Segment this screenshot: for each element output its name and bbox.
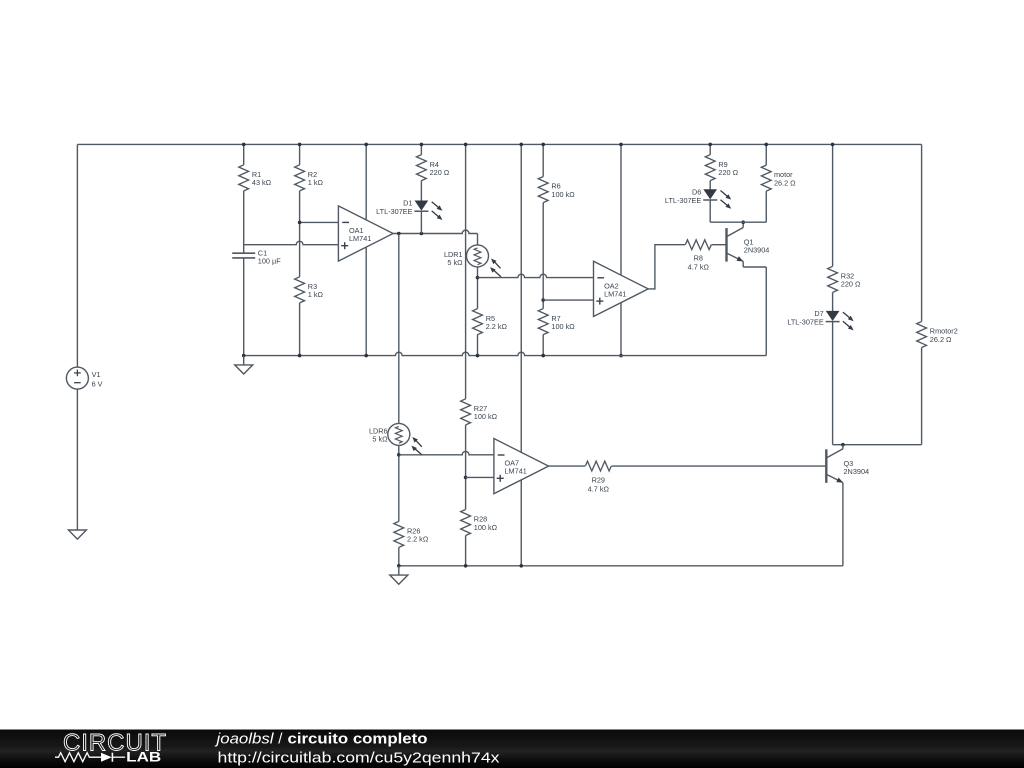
LED D7: [827, 311, 839, 320]
top rail junction dots: [242, 143, 246, 147]
node LDR6-OA7 junction: [397, 453, 401, 457]
svg-text:2N3904: 2N3904: [844, 467, 870, 476]
wire R32 upper lead: [832, 144, 834, 266]
ground symbol at lower rail: [398, 566, 400, 575]
resistor R2: [295, 165, 305, 191]
wire R1 to C1: [243, 191, 245, 253]
wire Q1 emitter down: [742, 261, 744, 267]
svg-text:LTL-307EE: LTL-307EE: [665, 196, 702, 205]
wire R6 upper lead: [542, 144, 544, 176]
wire R9 to D6: [709, 181, 711, 190]
svg-text:LAB: LAB: [126, 749, 161, 765]
OA2 V- power pin: [620, 303, 622, 356]
svg-text:http://circuitlab.com/cu5y2qen: http://circuitlab.com/cu5y2qennh74x: [218, 750, 501, 767]
node C1 at ground rail: [242, 354, 246, 358]
svg-text:R29: R29: [592, 475, 605, 484]
photoresistor LDR1: [467, 245, 489, 267]
wire R6 to R7: [542, 203, 544, 309]
svg-text:2.2 kΩ: 2.2 kΩ: [407, 535, 429, 544]
wire R9 upper lead: [709, 144, 711, 154]
OA1 V- power pin: [365, 247, 367, 355]
wire OA2 output to R8: [648, 245, 685, 289]
resistor R8: [685, 240, 711, 250]
transistor Q1: [725, 228, 727, 262]
wire OA2 inverting input from LDR1: [478, 274, 594, 277]
ground below V1: [76, 521, 78, 530]
resistor R32: [828, 266, 838, 292]
wire left branch to V1: [76, 144, 78, 367]
resistor R1: [239, 165, 249, 191]
wire lower ground rail: [399, 565, 843, 567]
wire C1 to ground rail: [243, 258, 245, 356]
resistor R5: [473, 309, 483, 335]
wire R7 to ground rail: [542, 335, 544, 356]
wire OA1 inverting input: [300, 221, 339, 223]
resistor R6: [538, 177, 548, 203]
wire Q3 collector stub: [842, 445, 844, 449]
svg-text:100 kΩ: 100 kΩ: [474, 412, 498, 421]
node Q3 collector junction: [841, 443, 845, 447]
wire R3 to ground rail: [299, 303, 301, 356]
wire Q1 collector: [742, 222, 744, 227]
wire main ground rail: [244, 352, 767, 355]
wire D6 to collector node: [709, 200, 711, 222]
wire LDR6 to R26: [398, 445, 400, 521]
node LDR1-R5 junction: [476, 276, 480, 280]
svg-text:5 kΩ: 5 kΩ: [372, 435, 388, 444]
svg-text:LM741: LM741: [505, 467, 527, 476]
svg-text:LTL-307EE: LTL-307EE: [376, 207, 413, 216]
node OA7 V- at lower rail: [519, 564, 523, 568]
svg-text:1 kΩ: 1 kΩ: [308, 178, 324, 187]
node OA1 output junction: [397, 232, 401, 236]
wire R32 to D7: [832, 292, 834, 311]
svg-text:4.7 kΩ: 4.7 kΩ: [688, 263, 710, 272]
node R6-R7-OA2 junction: [541, 298, 545, 302]
resistor R4: [417, 155, 427, 181]
resistor R7: [538, 309, 548, 335]
wire OA7 non-inverting input: [466, 476, 494, 478]
wire R27 to R28: [465, 425, 467, 510]
node Q1 collector junction: [741, 220, 745, 224]
svg-text:2N3904: 2N3904: [744, 246, 770, 255]
svg-text:2.2 kΩ: 2.2 kΩ: [486, 322, 508, 331]
svg-text:6 V: 6 V: [92, 379, 103, 388]
node junction R2-R3-OA1: [298, 221, 302, 225]
wire D7 to Q3 collector node: [832, 322, 834, 445]
svg-text:220 Ω: 220 Ω: [718, 168, 738, 177]
wire R5 to ground rail: [477, 335, 479, 356]
node R27-R28-OA7 junction: [464, 476, 468, 480]
OA1 V+ power pin: [365, 144, 367, 219]
logo resistor-diode glyph: [55, 753, 101, 762]
OA7 V- power pin: [520, 480, 522, 566]
svg-text:43 kΩ: 43 kΩ: [252, 178, 272, 187]
OA7 V+ power pin from top rail: [520, 144, 522, 452]
wire OA7 output to R29: [549, 465, 585, 467]
wire OA1 output: [393, 230, 477, 233]
wire R8 to Q1 base: [712, 244, 727, 246]
wire Q1 emitter to motor column: [743, 266, 766, 268]
svg-text:26.2 Ω: 26.2 Ω: [774, 178, 796, 187]
svg-text:V1: V1: [92, 370, 101, 379]
wire R1 column upper lead: [243, 144, 245, 165]
wire Rmotor2 lower lead: [921, 348, 923, 445]
node OA2 V- at ground rail: [619, 354, 623, 358]
node R5 at ground rail: [476, 354, 480, 358]
svg-text:220 Ω: 220 Ω: [430, 168, 450, 177]
resistor R27: [461, 399, 471, 425]
wire R2 column upper lead: [299, 144, 301, 165]
OA2 V+ power pin: [620, 144, 622, 275]
op-amp OA1: [338, 206, 393, 261]
op-amp OA7: [494, 439, 549, 494]
resistor R28: [461, 510, 471, 536]
voltage source V1: [66, 367, 88, 389]
node R28 at lower rail: [464, 564, 468, 568]
wire top supply rail: [77, 143, 921, 145]
wire R4 upper lead: [420, 144, 422, 154]
wire R29 to Q3 base: [612, 465, 827, 467]
node R3 at ground rail: [298, 354, 302, 358]
wire R27 column from top rail: [465, 144, 467, 399]
ground symbol at main rail: [243, 356, 245, 365]
wire Q3 emitter to lower ground rail: [842, 483, 844, 566]
wire R28 to lower ground rail: [465, 536, 467, 566]
resistor motor: [761, 165, 771, 191]
svg-text:100 kΩ: 100 kΩ: [474, 523, 498, 532]
resistor R3: [295, 277, 305, 303]
svg-text:5 kΩ: 5 kΩ: [447, 258, 463, 267]
svg-text:26.2 Ω: 26.2 Ω: [930, 335, 952, 344]
node R26 at lower rail: [397, 564, 401, 568]
wire OA1 non-inverting input from C1: [244, 241, 339, 244]
resistor R29: [585, 461, 611, 471]
svg-text:joaolbsl: joaolbsl: [214, 731, 274, 748]
wire LDR1 drop: [477, 234, 479, 245]
wire D1 to output node: [420, 211, 422, 233]
node D1 cathode junction: [420, 232, 424, 236]
wire OA2 non-inverting input: [543, 299, 593, 301]
wire R4 to D1: [420, 181, 422, 201]
wire OA1 output down to LDR6: [398, 234, 400, 424]
capacitor C1: [232, 252, 255, 254]
svg-text:LTL-307EE: LTL-307EE: [787, 318, 824, 327]
wire R26 to lower ground rail: [398, 547, 400, 565]
LED D6: [704, 190, 716, 199]
wire motor to collector node: [765, 191, 767, 222]
wire OA7 inverting input from LDR6: [399, 451, 494, 454]
svg-text:220 Ω: 220 Ω: [841, 280, 861, 289]
photoresistor LDR6: [388, 423, 410, 445]
transistor Q3: [825, 449, 827, 483]
wire LDR1 to R5: [477, 267, 479, 309]
svg-text:circuito completo: circuito completo: [288, 731, 428, 748]
svg-text:LM741: LM741: [604, 289, 626, 298]
svg-text:1 kΩ: 1 kΩ: [308, 290, 324, 299]
svg-text:100 kΩ: 100 kΩ: [551, 322, 575, 331]
svg-text:4.7 kΩ: 4.7 kΩ: [588, 485, 610, 494]
svg-text:100 kΩ: 100 kΩ: [551, 190, 575, 199]
resistor R26: [394, 521, 404, 547]
wire motor upper lead: [765, 144, 767, 165]
node OA1 V- at ground rail: [364, 354, 368, 358]
svg-text:LM741: LM741: [349, 234, 371, 243]
op-amp OA2: [594, 261, 649, 316]
LED D1: [415, 201, 427, 210]
node R7 at ground rail: [541, 354, 545, 358]
resistor R9: [705, 155, 715, 181]
resistor Rmotor2: [917, 322, 927, 348]
svg-text:R8: R8: [694, 253, 703, 262]
wire D7 node to Rmotor2: [833, 444, 922, 446]
wire R2 to R3: [299, 191, 301, 277]
wire emitter column down to ground rail: [765, 267, 767, 356]
wire V1 to ground: [76, 389, 78, 521]
svg-text:100 µF: 100 µF: [258, 257, 281, 266]
wire D6 bottom to motor bottom: [710, 221, 766, 223]
wire Rmotor2 from top rail: [921, 144, 923, 321]
